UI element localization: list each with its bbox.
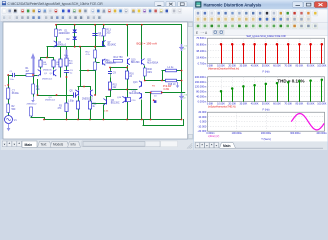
current probe arrow <box>31 53 35 74</box>
svg-text:E: E <box>196 31 198 35</box>
ground below V1 <box>8 124 10 129</box>
wire Q2 collector down <box>56 80 58 95</box>
svg-text:L1 2u: L1 2u <box>168 67 174 69</box>
svg-text:300.000u: 300.000u <box>290 132 301 135</box>
wire driver base line <box>110 89 137 91</box>
svg-text:Harmonic Distortion Analysis: Harmonic Distortion Analysis <box>204 2 263 7</box>
svg-text:40.00K: 40.00K <box>251 64 259 67</box>
svg-text:70.00K: 70.00K <box>284 64 292 67</box>
wire zobel split <box>162 71 164 81</box>
resistor R19 <box>151 91 162 97</box>
svg-text:10.00K: 10.00K <box>217 102 225 105</box>
wire bottom rail <box>44 119 182 121</box>
svg-text:F (Hz): F (Hz) <box>263 108 270 111</box>
capacitor C6 <box>94 62 97 70</box>
transistor Q4 <box>54 41 67 47</box>
wire Q8 stub <box>105 65 107 67</box>
wire cascode link <box>80 70 95 72</box>
svg-text:2N5401x2: 2N5401x2 <box>56 44 67 46</box>
svg-text:70.00K: 70.00K <box>284 102 292 105</box>
transistor Q12 <box>129 90 142 99</box>
svg-text:75.500m: 75.500m <box>196 36 206 40</box>
svg-text:38.100m: 38.100m <box>196 49 206 53</box>
capacitor C9 <box>108 70 116 78</box>
svg-text:BD139C: BD139C <box>131 62 140 64</box>
svg-text:200: 200 <box>106 31 111 34</box>
svg-text:BD140C: BD140C <box>108 44 117 46</box>
svg-text:0.000: 0.000 <box>200 120 207 124</box>
svg-text:0R1: 0R1 <box>147 71 152 74</box>
wire Q12 emitter to bottom rail <box>141 100 143 120</box>
wire D1 D2 branch <box>74 25 76 47</box>
svg-text:200.000m: 200.000m <box>195 75 207 79</box>
resistor R40 <box>143 68 146 76</box>
wire R19 right <box>162 92 186 94</box>
svg-text:(HarmonicDistortion%Real,Im): (HarmonicDistortion%Real,Im) <box>208 67 239 70</box>
svg-text:120.000m: 120.000m <box>195 85 207 89</box>
wire Q1 collector down <box>37 80 39 95</box>
resistor R1 <box>26 74 34 77</box>
wire Q10 emitter to R16 <box>127 66 129 72</box>
svg-text:F (Hz): F (Hz) <box>263 71 270 74</box>
svg-text:MJL4302A: MJL4302A <box>129 92 140 95</box>
svg-text:10.00K: 10.00K <box>217 64 225 67</box>
svg-text:20.00K: 20.00K <box>228 64 236 67</box>
transistor Q14 <box>117 96 126 103</box>
svg-text:Info: Info <box>71 143 77 147</box>
svg-text:40.00K: 40.00K <box>251 102 259 105</box>
transistor Q1 <box>38 70 41 77</box>
bottom-left resistor <box>27 104 38 116</box>
svg-text:Main: Main <box>223 144 231 148</box>
diode D1 <box>62 30 77 36</box>
svg-text:0.00K: 0.00K <box>207 102 214 105</box>
capacitor C5 <box>68 92 76 102</box>
wire R13 Q7 branch <box>103 25 105 47</box>
svg-text:2N5551x2: 2N5551x2 <box>42 78 53 80</box>
resistor R11 <box>88 101 97 109</box>
resistor R3 <box>58 103 69 112</box>
ground at zobel <box>177 82 179 86</box>
wire VAS mid line <box>110 67 127 69</box>
svg-text:30.00K: 30.00K <box>240 64 248 67</box>
transistor Q13 <box>133 81 142 88</box>
svg-text:20.00K: 20.00K <box>228 102 236 105</box>
wire Q10 collector branch <box>127 25 129 56</box>
svg-text:1.00p: 1.00p <box>68 101 74 103</box>
svg-text:BQ2 = 199 mA: BQ2 = 199 mA <box>137 42 158 46</box>
probe marker <box>153 99 157 103</box>
svg-text:19.400m: 19.400m <box>196 55 206 59</box>
svg-text:C:\MC12\DATA\Peter\Self-typout: C:\MC12\DATA\Peter\Self-typout\Self_typo… <box>8 2 104 6</box>
wire R5 branch <box>56 25 58 41</box>
wire right rail mid <box>181 52 183 94</box>
resistor R18 <box>166 79 177 86</box>
svg-text:68.00u: 68.00u <box>12 93 20 95</box>
svg-text:80.00K: 80.00K <box>296 102 304 105</box>
fb resistor RB <box>65 58 74 66</box>
wire R19 load drop <box>150 93 152 120</box>
svg-text:80.000m: 80.000m <box>196 90 206 94</box>
svg-text:T (Secs): T (Secs) <box>261 138 271 141</box>
wire diff split bar <box>41 57 54 59</box>
svg-text:60.00K: 60.00K <box>273 64 281 67</box>
transistor Q5 mirror <box>70 90 79 97</box>
wire diff tail <box>47 47 49 58</box>
resistor R15 <box>108 82 117 90</box>
svg-text:90.00K: 90.00K <box>307 64 315 67</box>
resistor R2 <box>7 104 16 113</box>
resistor R12 <box>86 50 97 58</box>
svg-text:0.000m: 0.000m <box>206 132 214 135</box>
wire top supply rail <box>56 24 182 26</box>
svg-text:2N5551x2: 2N5551x2 <box>27 104 38 106</box>
svg-text:400.000u: 400.000u <box>316 132 327 135</box>
wire V1 riser <box>8 75 10 88</box>
wire mirror left leg <box>78 97 80 102</box>
wire VAS column <box>110 68 112 71</box>
wire Q6 emitter down <box>103 105 105 120</box>
wire Q12 Q13 column <box>138 77 140 81</box>
svg-text:100.000u: 100.000u <box>232 132 243 135</box>
wire R9 to Q2 <box>53 67 55 69</box>
wire Q8 base <box>96 62 99 64</box>
current source I2 <box>65 50 69 59</box>
transistor Q7 <box>103 40 117 46</box>
wire right rail upper <box>181 25 183 44</box>
transistor Q6 VAS <box>103 99 119 106</box>
wire R8 to Q1 <box>40 67 42 69</box>
transistor Q11 <box>142 59 159 66</box>
svg-text:Models: Models <box>53 143 64 147</box>
resistor R14 <box>114 60 123 63</box>
wire R19 left <box>145 92 151 94</box>
svg-text:20.000: 20.000 <box>198 110 206 114</box>
wire mirror riser <box>80 47 82 87</box>
svg-text:100.00K: 100.00K <box>317 102 326 105</box>
svg-text:160.000m: 160.000m <box>195 80 207 84</box>
svg-text:200.000u: 200.000u <box>261 132 272 135</box>
resistor R6 <box>32 84 41 94</box>
transistor Q9 mirror <box>82 90 93 101</box>
svg-text:60.00K: 60.00K <box>273 102 281 105</box>
wire output line <box>145 80 166 82</box>
wire Q4 emitter <box>47 47 53 49</box>
wire R18 to rail <box>177 80 182 82</box>
svg-text:80.00K: 80.00K <box>296 64 304 67</box>
wire C4 branch <box>95 25 97 47</box>
wire bottom left corner <box>31 116 33 118</box>
wire feedback line to mirror <box>38 95 73 97</box>
wire R12 column <box>95 47 97 50</box>
wire mirror right leg <box>90 97 92 102</box>
transistor Q2 <box>54 70 57 77</box>
fb capacitor C3 <box>64 70 73 74</box>
svg-text:(mSpiceHarmonicsTHD,%): (mSpiceHarmonicsTHD,%) <box>208 105 236 108</box>
source V1 <box>5 116 18 124</box>
wire fb cross <box>61 77 67 79</box>
svg-text:MJL4281A: MJL4281A <box>147 61 158 64</box>
svg-text:30.00K: 30.00K <box>240 102 248 105</box>
svg-text:2N5551x2: 2N5551x2 <box>82 98 93 100</box>
resistor R8 <box>39 60 48 67</box>
resistor R9 <box>52 60 61 67</box>
svg-text:50.00K: 50.00K <box>262 102 270 105</box>
resistor R16 <box>125 71 134 79</box>
svg-text:-10.000: -10.000 <box>197 124 206 128</box>
wire R16 to base line <box>127 79 129 90</box>
battery V2 <box>181 44 183 51</box>
svg-text:0.4W: 0.4W <box>164 89 170 91</box>
junction dots <box>7 24 182 121</box>
fb resistor RA <box>59 59 62 67</box>
wire fb resistor column A <box>60 47 62 59</box>
svg-text:v(Rout) (V): v(Rout) (V) <box>208 135 219 138</box>
wire Q11 collector branch <box>141 25 143 59</box>
capacitor C10 <box>126 98 136 102</box>
svg-text:2N5551A: 2N5551A <box>107 62 117 65</box>
svg-text:Text: Text <box>41 143 47 147</box>
svg-text:0.700m: 0.700m <box>198 62 207 66</box>
wire Q2 base link <box>57 72 61 74</box>
svg-text:BD139C: BD139C <box>111 103 120 105</box>
wire L1 to rail <box>177 70 182 72</box>
svg-text:2N5551x2: 2N5551x2 <box>45 100 56 102</box>
capacitor C4 <box>92 33 97 35</box>
svg-text:0.00K: 0.00K <box>207 64 214 67</box>
svg-text:R14 750: R14 750 <box>114 56 124 59</box>
ground below R6 <box>33 97 35 101</box>
resistor R10 <box>76 101 79 109</box>
wire input line <box>8 75 12 77</box>
svg-text:50.00K: 50.00K <box>262 64 270 67</box>
transistor Q8 cascode <box>103 59 117 66</box>
capacitor C1 <box>10 71 15 81</box>
battery V3 <box>181 93 183 100</box>
svg-text:0.000m: 0.000m <box>198 100 207 104</box>
svg-text:100.00K: 100.00K <box>317 64 326 67</box>
svg-text:40.000m: 40.000m <box>196 95 206 99</box>
wire VAS base from mirror <box>90 103 106 105</box>
wire Q13-Q12 link <box>141 87 143 92</box>
wire output return loop <box>143 120 145 126</box>
svg-text:Q13: Q13 <box>133 82 138 84</box>
resistor R5 <box>55 29 58 37</box>
svg-text:· − A: · − A <box>201 31 209 35</box>
wire mirror top bar <box>78 86 90 88</box>
wire output node vertical <box>144 76 146 81</box>
wire right rail lower <box>181 101 183 120</box>
wire cascode sub-rail <box>47 46 104 48</box>
wire fb resistor column B <box>66 47 68 50</box>
resistor R13 <box>102 29 105 37</box>
svg-text:Self_typout-SCH_10kHz FCE.CIR: Self_typout-SCH_10kHz FCE.CIR <box>246 34 285 38</box>
wire Q14 column <box>127 90 129 120</box>
wire Q11 emitter to R40 <box>144 66 146 68</box>
wire cascode drop <box>95 71 97 96</box>
diode D2 <box>67 37 77 41</box>
inductor L1 <box>166 67 177 72</box>
svg-text:10.000: 10.000 <box>198 115 206 119</box>
svg-text:90.00K: 90.00K <box>307 102 315 105</box>
transistor Q10 <box>127 58 140 65</box>
svg-text:1N4148: 1N4148 <box>62 33 71 35</box>
svg-text:2N5401C: 2N5401C <box>43 70 53 72</box>
svg-text:Main: Main <box>25 143 33 147</box>
svg-text:P=2.3W: P=2.3W <box>163 86 172 88</box>
capacitor C7 <box>7 88 20 99</box>
wire R6 shunt <box>33 75 35 84</box>
svg-text:56.800m: 56.800m <box>196 43 206 47</box>
